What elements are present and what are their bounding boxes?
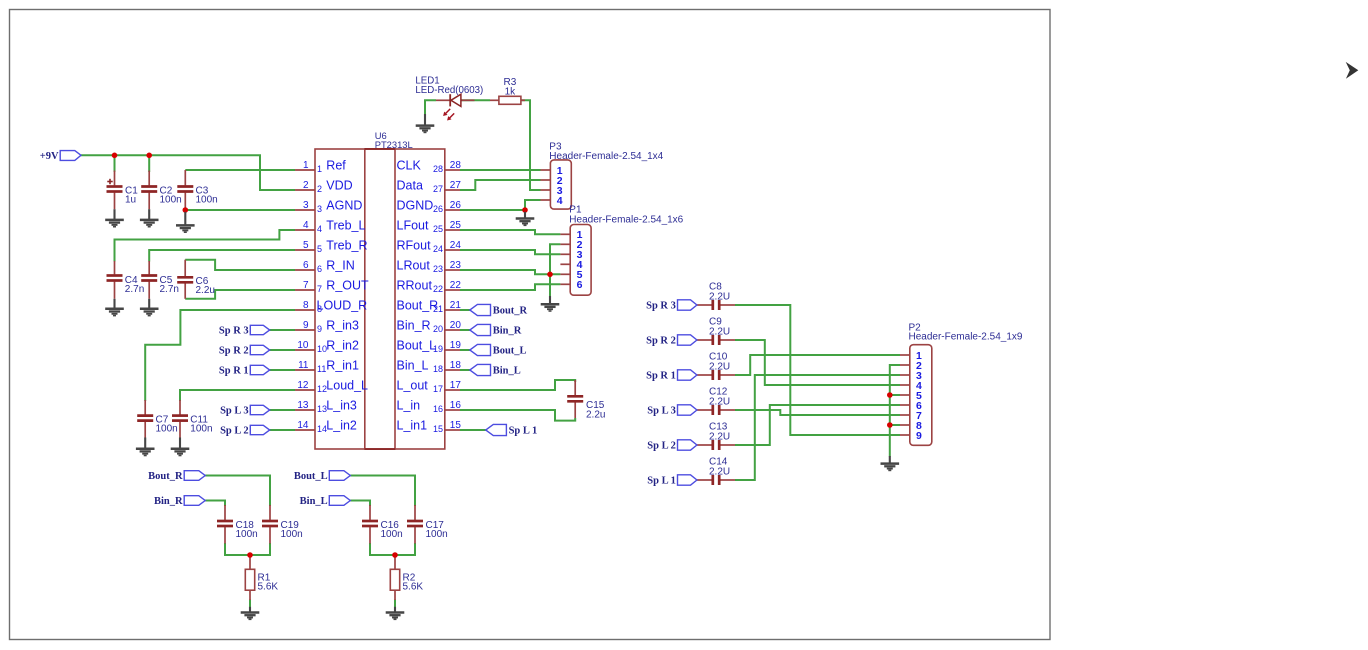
wire U6 pin 8 LOUD_R to C7 — [145, 310, 295, 401]
svg-text:Sp R 2: Sp R 2 — [219, 346, 249, 357]
svg-text:2.2U: 2.2U — [709, 397, 730, 408]
svg-text:2.7n: 2.7n — [160, 284, 179, 295]
svg-text:2.7n: 2.7n — [125, 284, 144, 295]
capacitor C2 — [141, 171, 182, 210]
wire U6 pin 7 R_OUT to C6 bottom — [185, 290, 295, 299]
net flag Sp R 3 — [646, 300, 697, 312]
wire U6 pin 25 LFout to P1 pin 1 — [460, 230, 560, 234]
net flag Sp L 3 — [647, 405, 697, 417]
svg-text:18: 18 — [450, 360, 462, 371]
wire U6 pin 28 CLK to P3 pin 1 — [460, 169, 541, 171]
net flag Bin_R — [470, 324, 522, 336]
ground C4 — [105, 309, 124, 316]
wire U6 pin 4 Treb_L to C4 — [115, 230, 296, 262]
svg-text:19: 19 — [450, 340, 462, 351]
net flag Bout_L — [470, 344, 527, 356]
svg-text:Bin_L: Bin_L — [397, 359, 429, 373]
net flag Sp R 2 — [646, 335, 697, 347]
C1 polarity plus sign — [107, 179, 112, 184]
svg-text:Loud_L: Loud_L — [326, 379, 368, 393]
svg-text:1u: 1u — [125, 194, 136, 205]
svg-text:20: 20 — [433, 324, 443, 334]
svg-text:L_in2: L_in2 — [326, 419, 357, 433]
svg-text:2.2U: 2.2U — [709, 467, 730, 478]
wire U6 pin 24 RFout to P1 pin 3 — [460, 250, 560, 254]
svg-text:24: 24 — [450, 240, 462, 251]
P2 pin 1 — [900, 350, 922, 362]
svg-text:100n: 100n — [426, 529, 448, 540]
capacitor C18 — [217, 505, 258, 544]
junction R2 node — [392, 552, 398, 558]
wire Sp R 2 flag to U6 pin 10 — [270, 349, 295, 351]
ground C7 — [136, 449, 155, 456]
svg-text:100n: 100n — [281, 529, 303, 540]
svg-text:DGND: DGND — [397, 199, 434, 213]
wire C13 to P2 pin 6 — [735, 405, 900, 445]
svg-text:6: 6 — [317, 264, 322, 274]
svg-text:17: 17 — [450, 380, 462, 391]
svg-text:25: 25 — [450, 220, 462, 231]
svg-text:22: 22 — [433, 284, 443, 294]
svg-text:Treb_L: Treb_L — [326, 219, 365, 233]
ground C11 — [171, 449, 190, 456]
svg-text:2.2U: 2.2U — [709, 362, 730, 373]
P1 pin 2 — [560, 239, 582, 251]
wire U6 pin 5 Treb_R to C5 — [149, 250, 295, 262]
svg-text:Bin_R: Bin_R — [154, 496, 183, 507]
U6 pin 5 Treb_R — [295, 239, 368, 255]
wire Sp L 3 flag to U6 pin 13 — [270, 409, 295, 411]
junction P1 pin 5 ground — [547, 272, 553, 278]
P2 pin 2 — [900, 360, 922, 372]
wire ground rail to P2 pin 8 — [890, 424, 900, 426]
U6 pin 28 CLK — [397, 159, 462, 175]
wire R3 to P3 pin 3 — [521, 100, 541, 190]
svg-text:5.6K: 5.6K — [258, 582, 279, 593]
ground P2 — [881, 464, 900, 471]
wire U6 pin 16 L_in to C15 bottom — [460, 410, 575, 421]
LED LED1 LED-Red(0603) — [415, 75, 483, 106]
svg-text:Sp L 3: Sp L 3 — [647, 406, 676, 417]
svg-text:1k: 1k — [505, 86, 517, 97]
svg-text:15: 15 — [450, 420, 462, 431]
wire P2 pin 2 ground rail with pins 5 and 8 — [890, 365, 900, 457]
capacitor C14 — [697, 457, 735, 486]
U6 pin 26 DGND — [397, 199, 462, 215]
svg-text:7: 7 — [317, 284, 322, 294]
wire C12 to P2 pin 7 — [735, 410, 900, 415]
wire Sp R 1 flag to U6 pin 11 — [270, 369, 295, 371]
junction +9V C2 — [146, 153, 152, 159]
svg-text:L_in1: L_in1 — [397, 419, 428, 433]
svg-text:13: 13 — [297, 400, 309, 411]
svg-text:11: 11 — [317, 364, 326, 374]
svg-text:Sp L 1: Sp L 1 — [647, 476, 676, 487]
svg-text:3: 3 — [317, 204, 322, 214]
svg-text:100n: 100n — [381, 529, 403, 540]
P3 pin 3 — [541, 185, 563, 197]
svg-text:LED-Red(0603): LED-Red(0603) — [415, 85, 483, 96]
P1 pin 3 — [560, 249, 582, 261]
U6 pin 23 LRout — [397, 259, 462, 275]
capacitor C8 — [697, 282, 735, 311]
wire U6 pin 26 DGND to P3 pin 4 and ground — [460, 209, 525, 211]
svg-text:Bin_R: Bin_R — [397, 319, 431, 333]
net flag Sp R 2 — [219, 345, 270, 356]
junction DGND node — [522, 207, 528, 213]
wire U6 pin 12 Loud_L to C11 — [180, 390, 295, 401]
P2 pin 8 — [900, 420, 922, 432]
svg-text:16: 16 — [450, 400, 462, 411]
U6 pin 4 Treb_L — [295, 219, 365, 235]
net flag Bout_R — [148, 471, 205, 483]
svg-text:RRout: RRout — [397, 279, 433, 293]
net flag Sp R 3 — [219, 325, 270, 336]
wire Bout_L flag to C17 — [350, 476, 415, 507]
capacitor C9 — [697, 317, 735, 346]
svg-text:2.2u: 2.2u — [586, 410, 605, 421]
wire LED1 anode to ground — [425, 100, 436, 114]
wire C3 top to U6 pin 1 Ref — [185, 169, 295, 171]
svg-text:Sp L 1: Sp L 1 — [509, 426, 538, 437]
U6 pin 11 R_in1 — [295, 359, 359, 375]
capacitor C5 — [141, 261, 179, 299]
ground C1 — [105, 220, 124, 227]
power flag +9V — [40, 151, 81, 162]
capacitor C6 — [177, 260, 215, 299]
ground R2 — [386, 613, 405, 620]
svg-text:R_in2: R_in2 — [326, 339, 359, 353]
ground DGND — [516, 219, 535, 226]
wire Sp R 3 flag to U6 pin 9 — [270, 329, 295, 331]
net flag Bin_L — [300, 496, 351, 508]
svg-text:6: 6 — [303, 260, 309, 271]
wire C10 to P2 pin 1 — [735, 355, 900, 375]
svg-text:100n: 100n — [196, 194, 218, 205]
U6 pin 3 AGND — [295, 199, 362, 215]
svg-text:5: 5 — [303, 240, 309, 251]
capacitor C10 — [697, 352, 735, 381]
svg-text:R_in3: R_in3 — [326, 319, 359, 333]
net flag Bin_L — [470, 364, 521, 376]
svg-text:Bout_L: Bout_L — [493, 346, 527, 357]
capacitor C17 — [407, 505, 448, 544]
svg-text:4: 4 — [557, 195, 563, 207]
svg-text:Sp R 3: Sp R 3 — [219, 326, 249, 337]
P2 pin 4 — [900, 380, 922, 392]
svg-text:Header-Female-2.54_1x9: Header-Female-2.54_1x9 — [909, 332, 1023, 343]
svg-text:L_out: L_out — [397, 379, 429, 393]
svg-text:+9V: +9V — [40, 151, 59, 162]
wire C18 C19 bottoms to R1 — [225, 543, 270, 555]
svg-text:Bin_L: Bin_L — [493, 366, 521, 377]
resistor R1 5.6K — [245, 555, 278, 600]
wire P1 pin 2 to ground rail — [550, 244, 560, 296]
ground C3 node — [176, 225, 195, 232]
junction P2 pin 5 ground — [887, 392, 893, 398]
svg-text:R_OUT: R_OUT — [326, 279, 369, 293]
svg-text:21: 21 — [450, 300, 462, 311]
wire C3 bottom node to U6 pin 3 AGND — [185, 209, 295, 211]
net flag Sp R 1 — [219, 365, 270, 376]
svg-text:CLK: CLK — [397, 159, 422, 173]
LED1 emission arrows — [443, 109, 454, 121]
P2 pin 5 — [900, 390, 922, 402]
ground LED1 — [416, 126, 435, 133]
svg-text:L_in: L_in — [397, 399, 421, 413]
U6 pin 2 VDD — [295, 179, 353, 195]
net flag Sp L 3 — [220, 405, 270, 416]
U6 pin 7 R_OUT — [295, 279, 369, 295]
connector P3 Header-Female-2.54_1x4 — [549, 142, 663, 210]
svg-text:27: 27 — [433, 184, 443, 194]
wire U6 pin 18 to Bin_L flag — [460, 369, 470, 371]
net flag Bout_R — [470, 304, 528, 316]
capacitor C13 — [697, 422, 735, 451]
svg-text:PT2313L: PT2313L — [375, 139, 413, 150]
svg-text:28: 28 — [433, 164, 443, 174]
svg-text:RFout: RFout — [397, 239, 432, 253]
U6 pin 25 LFout — [397, 219, 462, 235]
svg-text:Sp L 2: Sp L 2 — [647, 441, 676, 452]
svg-text:Sp R 1: Sp R 1 — [646, 371, 676, 382]
svg-text:AGND: AGND — [326, 199, 362, 213]
wire ground rail to P2 pin 5 — [890, 394, 900, 396]
svg-text:1: 1 — [317, 164, 322, 174]
wire R2 to ground — [394, 600, 396, 608]
wire Sp L 2 flag to U6 pin 14 — [270, 429, 295, 431]
U6 pin 27 Data — [397, 179, 462, 195]
resistor R3 1k — [490, 77, 525, 104]
U6 pin 15 L_in1 — [397, 419, 462, 435]
svg-text:100n: 100n — [160, 194, 182, 205]
svg-text:28: 28 — [450, 160, 462, 171]
U6 pin 19 Bout_L — [397, 339, 462, 355]
ground R1 — [241, 613, 260, 620]
svg-text:9: 9 — [916, 430, 922, 442]
U6 pin 22 RRout — [397, 279, 462, 295]
U6 pin 17 L_out — [397, 379, 462, 395]
svg-text:12: 12 — [297, 380, 309, 391]
svg-text:LFout: LFout — [397, 219, 429, 233]
svg-text:9: 9 — [303, 320, 309, 331]
connector P1 Header-Female-2.54_1x6 — [569, 205, 683, 296]
svg-text:16: 16 — [433, 404, 443, 414]
wire U6 pin 17 L_out to C15 top — [460, 380, 575, 390]
P1 pin 1 — [560, 229, 582, 241]
svg-text:2: 2 — [303, 180, 309, 191]
connector P2 Header-Female-2.54_1x9 — [909, 323, 1023, 446]
svg-text:26: 26 — [433, 204, 443, 214]
net flag Sp L 2 — [220, 425, 270, 436]
svg-text:2.2u: 2.2u — [196, 285, 215, 296]
svg-text:Sp L 2: Sp L 2 — [220, 426, 249, 437]
net flag Bout_L — [294, 471, 350, 483]
wire U6 pin 15 to Sp L 1 flag — [460, 429, 486, 431]
svg-text:Sp R 1: Sp R 1 — [219, 366, 249, 377]
svg-text:Treb_R: Treb_R — [326, 239, 367, 253]
capacitor C15 — [567, 380, 605, 421]
P3 pin 1 — [541, 165, 563, 177]
svg-text:R_in1: R_in1 — [326, 359, 359, 373]
U6 pin 8 LOUD_R — [295, 299, 367, 315]
svg-text:Bout_L: Bout_L — [294, 471, 328, 482]
svg-text:Bout_L: Bout_L — [397, 339, 437, 353]
P3 pin 4 — [541, 195, 563, 207]
net flag Sp L 2 — [647, 440, 697, 452]
svg-text:Header-Female-2.54_1x4: Header-Female-2.54_1x4 — [549, 151, 663, 162]
svg-text:2.2U: 2.2U — [709, 292, 730, 303]
net flag Sp R 1 — [646, 370, 697, 382]
svg-text:LOUD_R: LOUD_R — [317, 299, 368, 313]
net flag Sp L 1 — [647, 475, 697, 487]
U6 pin 24 RFout — [397, 239, 462, 255]
junction P2 pin 8 ground — [887, 422, 893, 428]
svg-text:Bout_R: Bout_R — [493, 306, 528, 317]
svg-text:3: 3 — [303, 200, 309, 211]
svg-text:Sp R 3: Sp R 3 — [646, 301, 676, 312]
svg-text:9: 9 — [317, 324, 322, 334]
svg-text:14: 14 — [297, 420, 309, 431]
ground C5 — [140, 309, 159, 316]
U6 pin 14 L_in2 — [295, 419, 357, 435]
capacitor C7 — [137, 400, 178, 438]
wire C14 to P2 pin 3 — [735, 375, 900, 480]
P1 pin 5 — [560, 269, 582, 281]
capacitor C11 — [172, 400, 213, 438]
wire U6 pin 21 to Bout_R flag — [460, 309, 470, 311]
wire +9V rail to U6 VDD pin 2 — [81, 155, 295, 190]
svg-text:2: 2 — [317, 184, 322, 194]
wire C2 to +9V rail — [148, 155, 150, 172]
svg-text:Data: Data — [397, 179, 423, 193]
svg-text:17: 17 — [433, 384, 443, 394]
ground C2 — [140, 220, 159, 227]
svg-text:L_in3: L_in3 — [326, 399, 357, 413]
op-amp U6 PT2313L body — [315, 130, 445, 449]
wire C8 to P2 pin 9 — [735, 305, 900, 435]
svg-text:7: 7 — [303, 280, 309, 291]
wire R1 to ground — [249, 600, 251, 608]
svg-text:4: 4 — [303, 220, 309, 231]
svg-text:4: 4 — [317, 224, 322, 234]
junction R1 node — [247, 552, 253, 558]
P2 pin 3 — [900, 370, 922, 382]
capacitor C19 — [262, 505, 303, 544]
svg-text:2.2U: 2.2U — [709, 432, 730, 443]
U6 pin 20 Bin_R — [397, 319, 462, 335]
U6 pin 9 R_in3 — [295, 319, 359, 335]
svg-text:10: 10 — [297, 340, 309, 351]
svg-text:Bout_R: Bout_R — [397, 299, 439, 313]
wire Bin_L flag to C16 — [350, 501, 370, 507]
svg-text:LRout: LRout — [397, 259, 431, 273]
net flag Sp L 1 — [486, 424, 538, 436]
svg-text:26: 26 — [450, 200, 462, 211]
svg-text:5.6K: 5.6K — [403, 582, 424, 593]
svg-text:VDD: VDD — [326, 179, 352, 193]
U6 pin 18 Bin_L — [397, 359, 462, 375]
junction +9V C1 — [112, 153, 118, 159]
svg-text:11: 11 — [298, 360, 309, 371]
svg-text:24: 24 — [433, 244, 443, 254]
U6 pin 12 Loud_L — [295, 379, 368, 395]
U6 pin 10 R_in2 — [295, 339, 359, 355]
svg-text:Ref: Ref — [326, 159, 346, 173]
wire LED1 cathode to R3 — [461, 99, 490, 101]
svg-text:Header-Female-2.54_1x6: Header-Female-2.54_1x6 — [569, 214, 683, 225]
svg-text:Sp L 3: Sp L 3 — [220, 406, 249, 417]
net flag Bin_R — [154, 496, 205, 508]
capacitor C4 — [107, 261, 145, 299]
svg-text:25: 25 — [433, 224, 443, 234]
svg-text:100n: 100n — [156, 423, 178, 434]
svg-text:R_IN: R_IN — [326, 259, 354, 273]
U6 pin 6 R_IN — [295, 259, 355, 275]
svg-text:Sp R 2: Sp R 2 — [646, 336, 676, 347]
wire U6 pin 20 to Bin_R flag — [460, 329, 470, 331]
wire U6 pin 6 R_IN to C6 top — [185, 260, 295, 270]
svg-text:Bin_R: Bin_R — [493, 326, 522, 337]
wire Bin_R flag to C18 — [205, 501, 225, 507]
capacitor C12 — [697, 387, 735, 416]
svg-text:2.2U: 2.2U — [709, 327, 730, 338]
svg-text:100n: 100n — [190, 423, 212, 434]
wire U6 pin 19 to Bout_L flag — [460, 349, 470, 351]
ground P1 — [541, 304, 560, 311]
P1 pin 4 — [560, 259, 582, 271]
svg-text:23: 23 — [450, 260, 462, 271]
svg-text:18: 18 — [433, 364, 443, 374]
wire U6 pin 27 Data to P3 pin 2 — [460, 180, 541, 190]
capacitor C1 — [107, 171, 139, 210]
wire C16 C17 bottoms to R2 — [370, 543, 415, 555]
svg-text:23: 23 — [433, 264, 443, 274]
svg-text:100n: 100n — [236, 529, 258, 540]
wire Bout_R flag to C19 — [205, 476, 270, 507]
wire C9 to P2 pin 4 — [735, 340, 900, 385]
svg-text:5: 5 — [317, 244, 322, 254]
P2 pin 9 — [900, 430, 922, 442]
wire U6 pin 22 RRout to P1 pin 6 — [460, 284, 560, 290]
svg-text:27: 27 — [450, 180, 462, 191]
P3 pin 2 — [541, 175, 563, 187]
U6 pin 21 Bout_R — [397, 299, 462, 315]
P2 pin 6 — [900, 400, 922, 412]
P1 pin 6 — [560, 279, 582, 291]
svg-text:8: 8 — [303, 300, 309, 311]
U6 pin 1 Ref — [295, 159, 346, 175]
wire C1 to +9V rail — [114, 155, 116, 172]
svg-text:1: 1 — [303, 160, 309, 171]
junction C3 AGND node — [183, 207, 189, 213]
P2 pin 7 — [900, 410, 922, 422]
capacitor C16 — [362, 505, 403, 544]
sidebar arrow icon — [1346, 62, 1359, 79]
wire U6 pin 23 LRout to P1 pin 5 — [460, 270, 560, 274]
svg-text:Bout_R: Bout_R — [148, 471, 183, 482]
resistor R2 5.6K — [390, 555, 423, 600]
U6 pin 16 L_in — [397, 399, 462, 415]
svg-text:20: 20 — [450, 320, 462, 331]
svg-text:22: 22 — [450, 280, 462, 291]
U6 pin 13 L_in3 — [295, 399, 357, 415]
capacitor C3 — [177, 170, 217, 209]
svg-text:Bin_L: Bin_L — [300, 496, 328, 507]
svg-text:6: 6 — [577, 279, 583, 291]
svg-text:15: 15 — [433, 424, 443, 434]
